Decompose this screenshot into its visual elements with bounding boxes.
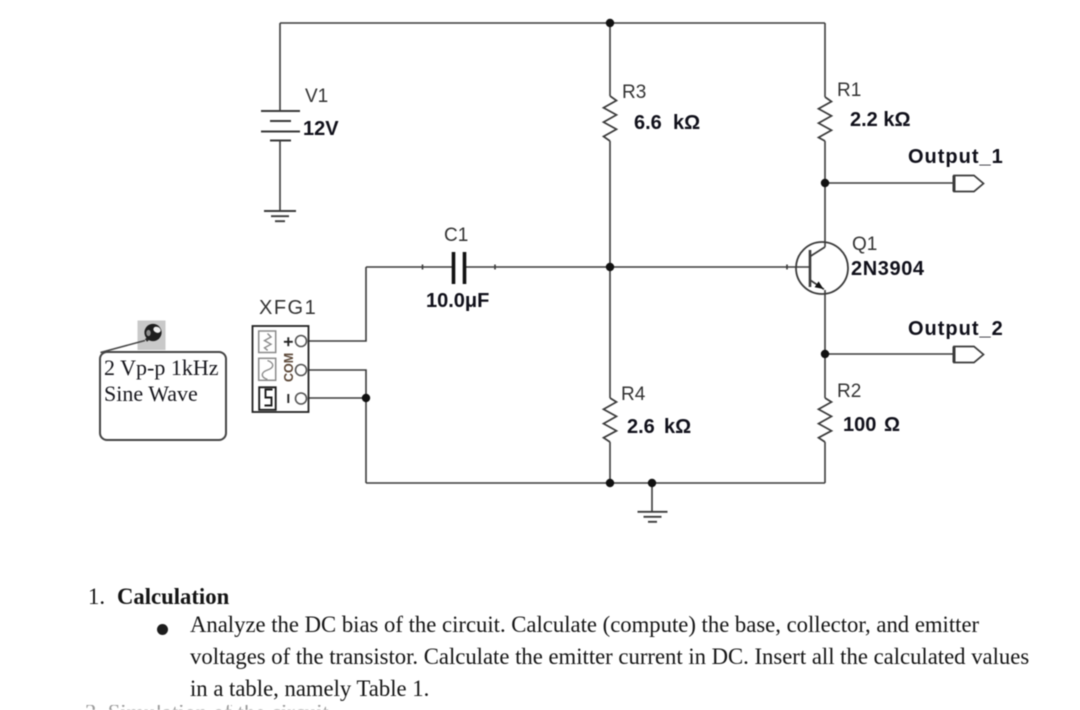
node C1 / base [606,263,614,271]
wire R1 top lead [824,23,826,97]
wire XFG COM [306,370,366,398]
svg-text:Q1: Q1 [852,234,877,255]
wire Output_2 [825,353,954,355]
wire bottom rail [366,482,825,484]
wire C1 horizontal right [466,266,610,268]
note text [104,355,219,406]
wire R2 bottom lead [824,442,826,483]
node ground tap [648,479,656,487]
svg-text:6.6: 6.6 [634,112,662,134]
svg-text:2N3904: 2N3904 [851,258,925,280]
transistor Q1 [796,242,848,294]
heading 1. Calculation [88,586,105,609]
svg-text:10.0μF: 10.0μF [426,290,489,312]
terminal minus [287,394,289,403]
clipped next line [85,705,329,710]
svg-text:V1: V1 [305,86,328,107]
svg-text:kΩ: kΩ [673,112,700,134]
resistor R3 [604,96,617,141]
svg-text:2.6: 2.6 [627,416,655,438]
wire R2 top lead [824,354,826,398]
wire V1 top lead [279,23,281,111]
svg-text:12V: 12V [303,118,339,140]
pin tick C1 left [422,265,424,270]
svg-text:2.2 kΩ: 2.2 kΩ [850,109,911,131]
svg-text:COM: COM [282,353,296,382]
wire XFG junction down [365,398,367,483]
wire XFG plus to C1 [306,267,366,341]
svg-text:C1: C1 [444,225,468,246]
terminal plus [284,337,293,346]
svg-text:R1: R1 [837,80,861,101]
node Output_1 [821,179,829,187]
connector Output_2 [954,347,984,363]
resistor R2 [819,398,832,442]
svg-text:R4: R4 [621,384,646,405]
resistor R1 [819,97,832,141]
svg-text:R3: R3 [622,82,646,103]
wire Output_1 [825,182,954,184]
note box [100,352,226,440]
battery V1 [261,111,300,141]
svg-text:2 Vp-p 1kHz: 2 Vp-p 1kHz [104,355,219,380]
svg-text:R2: R2 [837,381,861,402]
ground bottom [638,512,668,522]
wire battery bottom lead [279,141,281,211]
svg-text:Ω: Ω [884,414,900,436]
wire R3 top lead [609,23,611,96]
wire base node to Q1 [610,266,810,268]
wire R1 bottom to collector node [824,141,826,183]
node R4 bottom [606,479,614,487]
pin tick C1 right [494,265,496,270]
svg-text:Output_1: Output_1 [908,146,1004,168]
wire ground tap [651,483,653,511]
wire top rail [280,22,825,24]
paragraph line 1 [190,614,979,637]
node top rail / R3 [606,19,614,27]
node Output_2 [821,350,829,358]
connector Output_1 [954,176,984,192]
paragraph line 2 [190,646,1029,669]
svg-text:XFG1: XFG1 [259,297,317,319]
wire collector lead [824,183,826,247]
wire R3 bottom to R4 top [609,141,611,398]
pin tick Q1 base [786,265,788,270]
bullet [157,624,168,635]
function generator XFG1 [253,326,309,412]
wire emitter lead [824,290,826,354]
svg-text:Output_2: Output_2 [908,318,1004,340]
svg-text:kΩ: kΩ [664,416,691,438]
capacitor C1 [454,252,465,284]
svg-text:Sine Wave: Sine Wave [104,381,198,406]
note pushpin tag [101,321,166,353]
ground under battery [264,211,296,221]
wire C1 horizontal left [366,266,452,268]
wire R4 bottom lead [609,442,611,483]
paragraph line 3 [190,678,429,701]
node XFG COM/minus [362,394,370,402]
wire XFG minus [306,397,366,399]
svg-text:100: 100 [843,414,876,436]
resistor R4 [604,398,617,442]
terminal circles [296,336,307,405]
